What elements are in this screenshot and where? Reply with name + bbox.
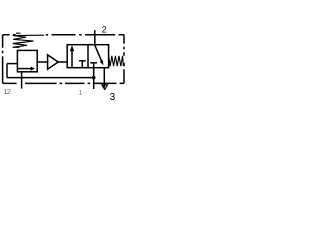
pilot feedback wire left vertical	[6, 64, 8, 78]
valve right cell blocked port T	[90, 62, 97, 64]
junction dot port 1 / pipe	[92, 76, 96, 80]
svg-text:2: 2	[102, 25, 107, 35]
port 1 stub	[93, 63, 95, 89]
svg-text:3: 3	[110, 92, 116, 103]
exhaust triangle port 3	[102, 85, 107, 90]
enclosure left dash-dot	[2, 35, 4, 84]
main pipe bottom	[7, 77, 94, 79]
valve left cell up arrow	[71, 51, 73, 68]
valve left cell blocked port T	[79, 60, 86, 62]
enclosure bottom dash-dot	[3, 82, 124, 84]
amplifier U1 triangle	[48, 55, 59, 69]
enclosure top dash-dot	[3, 34, 124, 36]
regulator flow arrow	[18, 68, 31, 70]
pressure regulator R1 box	[17, 50, 37, 71]
valve V1 body	[67, 45, 108, 68]
enclosure right dash-dot	[123, 35, 125, 84]
port 12 riser	[21, 72, 23, 89]
regulator spring zigzag	[13, 33, 45, 47]
pilot feedback wire left horizontal	[7, 63, 17, 65]
valve right cell diagonal path	[95, 45, 102, 62]
valve divider	[87, 45, 89, 68]
svg-text:1: 1	[79, 90, 83, 97]
wire regulator output to amplifier	[37, 61, 47, 63]
svg-text:12: 12	[3, 87, 10, 96]
valve return spring	[109, 56, 124, 66]
wire amplifier to valve pilot	[58, 61, 67, 63]
port 3 stub	[103, 68, 105, 88]
port 2 riser	[94, 30, 96, 45]
